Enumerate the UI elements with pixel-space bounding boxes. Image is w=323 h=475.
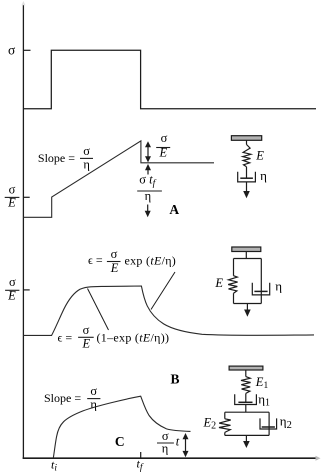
svg-text:σ: σ bbox=[9, 275, 16, 289]
svg-text:η: η bbox=[260, 168, 267, 183]
svg-text:Slope =: Slope = bbox=[44, 391, 81, 405]
svg-text:E: E bbox=[110, 261, 119, 275]
svg-text:E: E bbox=[255, 148, 264, 162]
svg-text:σ: σ bbox=[83, 323, 90, 337]
svg-text:E: E bbox=[81, 336, 90, 350]
svg-text:ϵ =: ϵ = bbox=[58, 331, 73, 345]
svg-text:η: η bbox=[83, 158, 90, 172]
svg-text:E: E bbox=[214, 276, 223, 290]
svg-text:η: η bbox=[162, 442, 169, 456]
svg-text:σ: σ bbox=[9, 182, 16, 196]
svg-text:η: η bbox=[90, 398, 97, 412]
svg-text:σ: σ bbox=[83, 144, 90, 158]
svg-text:σ: σ bbox=[161, 131, 168, 145]
svg-text:t: t bbox=[176, 435, 180, 449]
svg-text:η: η bbox=[275, 278, 282, 293]
svg-text:σ: σ bbox=[90, 384, 97, 398]
svg-text:A: A bbox=[169, 202, 179, 217]
svg-text:(1–exp (tE/η)): (1–exp (tE/η)) bbox=[97, 331, 170, 345]
svg-text:E: E bbox=[158, 146, 167, 160]
svg-text:σ: σ bbox=[111, 247, 118, 261]
svg-text:exp (tE/η): exp (tE/η) bbox=[125, 253, 177, 267]
svg-text:E: E bbox=[7, 289, 16, 303]
svg-text:B: B bbox=[170, 372, 179, 387]
svg-text:η: η bbox=[145, 189, 152, 203]
svg-text:C: C bbox=[115, 434, 125, 449]
svg-text:ϵ =: ϵ = bbox=[88, 253, 103, 267]
svg-text:Slope =: Slope = bbox=[38, 151, 75, 165]
svg-text:σ: σ bbox=[8, 42, 16, 57]
svg-text:E: E bbox=[7, 196, 16, 210]
